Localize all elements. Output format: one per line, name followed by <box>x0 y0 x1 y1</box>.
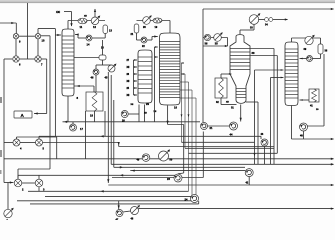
svg-text:XII: XII <box>226 102 229 104</box>
svg-text:XII: XII <box>84 16 87 18</box>
svg-text:XII: XII <box>127 67 130 69</box>
svg-text:XII: XII <box>127 95 130 97</box>
svg-text:XII: XII <box>154 111 157 113</box>
svg-text:XII: XII <box>131 104 134 106</box>
svg-text:XXI: XXI <box>56 11 60 14</box>
svg-text:XII: XII <box>144 113 147 115</box>
svg-text:XII: XII <box>127 81 130 83</box>
